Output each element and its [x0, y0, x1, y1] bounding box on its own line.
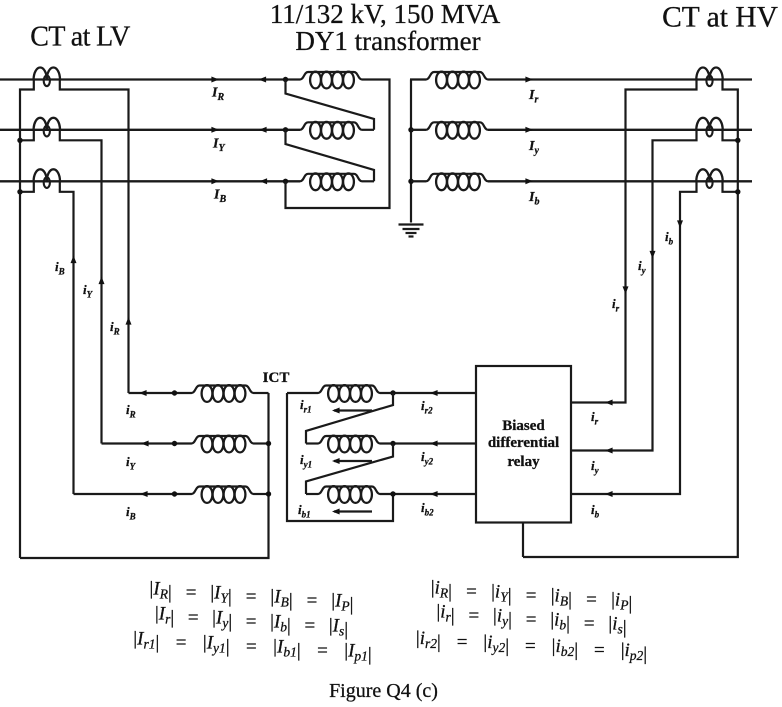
wire: delta diagonal R-Y	[286, 80, 375, 130]
svg-text:ir: ir	[612, 296, 620, 314]
winding: ICT secondary y1	[318, 436, 380, 453]
svg-text:ib: ib	[591, 502, 600, 520]
node: delta B	[283, 179, 288, 184]
arrow I_Y	[211, 127, 219, 133]
wire: CT-LV Y secondary right lead	[60, 131, 102, 444]
svg-text:iR: iR	[126, 402, 136, 420]
svg-text:Figure Q4 (c): Figure Q4 (c)	[329, 680, 438, 702]
arrow i_y2	[430, 441, 438, 447]
wire: phase line R (left)	[0, 78, 300, 80]
junction: wye bus row2	[408, 127, 413, 132]
node: delta R	[283, 77, 288, 82]
CT at HV phase r	[696, 68, 722, 87]
wire: delta diagonal Y-B	[286, 130, 375, 182]
arrow I_y	[525, 127, 533, 133]
wire: ICT delta left vertical + bottom	[287, 393, 393, 521]
arrow toward transformer row Y	[259, 127, 267, 133]
wire: wye neutral bus	[410, 80, 412, 223]
wire: delta row1 right extension	[286, 80, 390, 209]
arrow i_B left	[140, 491, 148, 497]
arrow i_Y up	[99, 277, 105, 285]
arrow i_r2	[430, 390, 438, 396]
CT at LV phase B	[34, 169, 60, 188]
svg-text:iy: iy	[591, 458, 600, 476]
wire: ICT delta row3 bar	[306, 493, 318, 495]
wire: ICT delta row1 bar	[287, 392, 318, 394]
wire: ICT delta row3 right	[380, 493, 476, 495]
arrow I_b	[525, 178, 533, 184]
wire: CT-LV Y secondary left lead	[20, 131, 34, 141]
svg-text:Ib: Ib	[528, 190, 539, 208]
wire: CT-LV B secondary left lead	[20, 182, 34, 192]
junction: ICT row iY tap	[172, 441, 177, 446]
arrow i_B up	[71, 256, 77, 264]
arrow toward transformer row R	[259, 77, 267, 83]
relay: biased differential relay box	[476, 366, 571, 523]
wire: CT-HV y secondary right lead	[723, 131, 738, 141]
svg-text:CT at LV: CT at LV	[30, 22, 130, 53]
svg-text:iy1: iy1	[300, 452, 312, 470]
arrow i_y1	[334, 460, 372, 462]
wire: ICT row iR	[129, 392, 192, 394]
winding: wye r (HV)	[426, 72, 488, 89]
svg-text:ICT: ICT	[263, 370, 290, 386]
svg-text:Biased: Biased	[502, 418, 545, 434]
wire: phase line r (right)	[488, 78, 752, 80]
wire: delta row2 right stub	[362, 129, 374, 131]
arrow i_b2	[430, 491, 438, 497]
svg-text:iB: iB	[55, 259, 65, 277]
junction: delta r1 / i_r2	[390, 390, 395, 395]
wire: ICT row iB	[74, 493, 192, 495]
arrow I_R	[211, 77, 219, 83]
ground: wye neutral earth	[399, 225, 424, 237]
arrow i_b into relay	[605, 491, 613, 497]
wire: wye row1 stub	[410, 78, 426, 80]
svg-text:ir2: ir2	[421, 398, 433, 416]
junction: ICT row iR tap	[172, 390, 177, 395]
arrow i_b down	[677, 220, 683, 228]
winding: ICT secondary r1	[318, 385, 380, 402]
arrow i_r down	[623, 286, 629, 294]
winding: delta B (LV)	[300, 173, 362, 190]
svg-text:ib1: ib1	[298, 502, 311, 520]
wire: CT-LV R secondary right lead	[60, 81, 129, 394]
arrow i_R up	[126, 317, 132, 325]
wire: ICT delta row2 bar	[306, 442, 318, 444]
svg-text:relay: relay	[507, 454, 540, 470]
arrow i_Y left	[141, 441, 149, 447]
wire: CT-LV R secondary left lead	[20, 81, 34, 559]
CT at HV phase b	[696, 169, 722, 188]
arrow i_r into relay	[605, 400, 613, 406]
arrow i_b1	[334, 510, 372, 512]
wire: ICT row iY	[102, 442, 192, 444]
svg-text:ib: ib	[665, 229, 674, 247]
winding: ICT primary B	[192, 486, 254, 503]
junction: ICT bus row3	[266, 491, 271, 496]
CT at LV phase Y	[34, 118, 60, 137]
winding: wye b (HV)	[426, 173, 488, 190]
svg-text:iR: iR	[110, 319, 120, 337]
arrow I_r	[525, 77, 533, 83]
svg-text:CT at HV: CT at HV	[662, 2, 778, 34]
wire: phase line b (right)	[488, 180, 752, 182]
svg-text:IB: IB	[213, 188, 226, 206]
wire: relay return stub	[522, 523, 524, 558]
svg-text:iB: iB	[126, 504, 136, 522]
svg-text:differential: differential	[488, 435, 559, 451]
junction: wye bus row3	[408, 179, 413, 184]
wire: wye row3 stub	[411, 180, 426, 182]
svg-text:11/132 kV, 150 MVA: 11/132 kV, 150 MVA	[270, 0, 501, 29]
junction: HV return / CT-y	[735, 138, 740, 143]
junction: ICT bus row2	[266, 441, 271, 446]
wire: delta row3 right stub	[362, 180, 374, 182]
svg-text:iY: iY	[126, 454, 137, 472]
wire: ICT delta diagonal y1-b1	[306, 444, 393, 495]
junction: delta y1 / i_y2	[390, 441, 395, 446]
wire: ICT delta row2 right	[380, 442, 476, 444]
wire: CT-HV y secondary left lead	[571, 131, 697, 451]
node: delta Y	[283, 127, 288, 132]
junction: ICT row iB tap	[172, 491, 177, 496]
wire: wye row2 stub	[411, 129, 426, 131]
arrow i_R left	[139, 390, 147, 396]
junction: common neutral / CT-Y	[17, 138, 22, 143]
CT at LV phase R	[34, 68, 60, 87]
winding: ICT primary Y	[192, 436, 254, 453]
svg-text:iY: iY	[83, 282, 94, 300]
CT at HV phase y	[696, 118, 722, 137]
winding: ICT secondary b1	[318, 486, 380, 503]
svg-text:Iy: Iy	[528, 139, 539, 157]
svg-text:ir1: ir1	[300, 397, 312, 415]
svg-text:IR: IR	[211, 86, 224, 104]
junction: HV return / CT-b	[735, 189, 740, 194]
wire: CT-HV r secondary right lead	[523, 81, 738, 558]
wire: ICT delta diagonal r1-y1	[306, 393, 393, 444]
svg-text:ib2: ib2	[421, 500, 434, 518]
wire: CT-LV B secondary right lead	[60, 182, 74, 494]
arrow i_y down	[650, 251, 656, 259]
svg-text:iy2: iy2	[421, 449, 434, 467]
wire: phase line B (left)	[0, 180, 300, 182]
wire: CT-HV b secondary left lead	[571, 182, 697, 494]
wire: phase line y (right)	[488, 129, 752, 131]
arrow i_r1	[334, 409, 372, 411]
wire: CT-HV b secondary right lead	[723, 182, 738, 192]
junction: common neutral / CT-B	[17, 189, 22, 194]
arrow I_B	[211, 178, 219, 184]
wire: phase line Y (left)	[0, 129, 300, 131]
svg-text:iy: iy	[638, 258, 647, 276]
junction: delta b1 / i_b2	[390, 491, 395, 496]
wire: CT-HV r secondary left lead	[571, 81, 697, 403]
svg-text:Ir: Ir	[528, 88, 538, 106]
arrow i_y into relay	[605, 448, 613, 454]
svg-text:DY1 transformer: DY1 transformer	[295, 26, 480, 56]
arrow toward transformer row B	[260, 178, 268, 184]
winding: delta R (LV)	[300, 72, 362, 89]
winding: wye y (HV)	[426, 122, 488, 139]
winding: ICT primary R	[192, 385, 254, 402]
wire: ICT delta row1 right	[380, 392, 476, 394]
wire: ICT neutral bus	[20, 393, 269, 558]
svg-text:ir: ir	[591, 409, 599, 427]
winding: delta Y (LV)	[300, 122, 362, 139]
svg-text:IY: IY	[212, 137, 225, 155]
